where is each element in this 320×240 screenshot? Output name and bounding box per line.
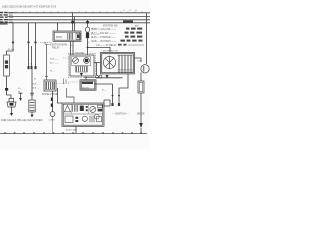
pin ticks on bus 1 <box>16 11 142 13</box>
fuse block value text <box>9 12 13 23</box>
ECU comparator triangle <box>64 105 70 111</box>
ECU lower hatch <box>90 116 94 123</box>
wire coil to distributor <box>88 47 111 52</box>
ECU small boxes <box>98 105 103 108</box>
igniter inner compartment <box>72 56 91 65</box>
resistor R1 <box>138 81 144 93</box>
junction dot coil/distributor wire <box>87 47 89 49</box>
igniter transistor Q2 <box>84 58 90 64</box>
ECU dark block <box>80 106 84 111</box>
noise filter box <box>44 80 56 91</box>
noise filter leader dashes <box>57 83 71 85</box>
wire drop D (x35.5) <box>35 23 37 66</box>
distributor box <box>101 53 135 74</box>
igniter leader dashes <box>63 57 70 59</box>
signal generator (circle with cross) <box>103 56 115 70</box>
label AM2 on bus <box>123 21 133 23</box>
wire drop B (x28.5) <box>28 23 30 66</box>
wire drop C (x31.5) <box>31 46 33 66</box>
coil top wire <box>87 20 89 27</box>
svg-text:COND: COND <box>49 119 56 121</box>
igniter transistor Q1 <box>73 58 79 64</box>
noise filter hatch <box>47 82 54 89</box>
connector row (3 pins) <box>28 66 37 69</box>
svg-text:FL 0.5: FL 0.5 <box>8 49 15 51</box>
ECU pin marks top <box>111 103 113 106</box>
small symbols left of tacho <box>64 79 67 85</box>
noise filter top stem <box>46 44 48 80</box>
ECU transistor circle 2 <box>94 114 99 119</box>
ground bus <box>0 132 147 134</box>
sensor ground <box>11 107 13 113</box>
wire pair drop to coil box right (x72.5,74.5) <box>72 13 74 31</box>
svg-text:1982 CELICA (5M-GE) IGN SYSTEM: 1982 CELICA (5M-GE) IGN SYSTEM <box>1 119 43 122</box>
wire drop to fusible link <box>7 23 14 55</box>
wire to ECU left <box>58 88 63 103</box>
svg-text:NOISE FILTER: NOISE FILTER <box>42 94 58 96</box>
svg-text:RELAY: RELAY <box>52 46 60 49</box>
svg-text:(: ( <box>89 40 90 44</box>
svg-text:5M-GE: 5M-GE <box>137 113 145 116</box>
ECU hatch block <box>73 105 78 112</box>
svg-text:1982 CELICA 5M-GE (M/T,A/T) IG: 1982 CELICA 5M-GE (M/T,A/T) IGNITION SYS <box>2 4 56 8</box>
bus wire 2 <box>8 16 151 18</box>
ECU lower marks <box>75 117 78 119</box>
junction dot <box>71 21 74 24</box>
coil bottom wire <box>87 38 89 55</box>
tick on wire <box>31 94 34 96</box>
svg-text:AM: AM <box>135 24 138 27</box>
cylinder ground <box>31 112 33 115</box>
wire stub row 5 <box>128 44 144 46</box>
check connector circle <box>141 65 149 73</box>
wire tacho drop <box>94 83 113 85</box>
wire distributor right drop <box>119 74 128 103</box>
ECU lower box <box>65 116 73 122</box>
bus wire 3 <box>8 19 151 21</box>
wire ECU to ground bus <box>75 126 77 133</box>
wire distributor to check line <box>135 58 142 62</box>
ignition main relay box <box>53 31 81 41</box>
resistor cylinder (cord) <box>30 92 34 94</box>
wire below check connector <box>140 73 142 82</box>
leader dashes mid-left <box>40 41 52 43</box>
wire tacho top <box>85 77 87 80</box>
relay coil hatch <box>68 33 73 40</box>
wire noise filter down <box>52 91 54 112</box>
wire resistor down <box>140 93 142 123</box>
svg-text:B-Y ——: B-Y —— <box>50 62 59 64</box>
svg-text:IG: IG <box>70 44 73 46</box>
wire fusible link bottom <box>6 76 8 95</box>
svg-text:E1 E2 GND: E1 E2 GND <box>66 130 77 132</box>
distributor terminals <box>96 75 99 78</box>
svg-text:— IGNITION —: — IGNITION — <box>112 113 129 116</box>
igniter outer box (dashed) <box>68 53 95 77</box>
igniter internal ground <box>80 73 83 76</box>
svg-text:L-R —— ST RELAY: L-R —— ST RELAY <box>96 44 117 47</box>
coil leader dashes <box>91 28 100 34</box>
svg-text:(B-W) — IGN COIL ——: (B-W) — IGN COIL —— <box>91 29 116 31</box>
svg-text:(: ( <box>89 33 90 37</box>
tacho leader dashes <box>68 81 80 83</box>
ground bus junction nubs <box>4 132 142 134</box>
arrow to ground bus <box>139 123 143 128</box>
svg-text:B-W ——: B-W —— <box>50 58 60 60</box>
sensor (pickup) body <box>9 98 14 101</box>
svg-text:MAIN: MAIN <box>56 36 62 39</box>
svg-text:W —: W — <box>50 70 56 72</box>
connector hatch on wire <box>51 98 53 101</box>
fuse block connector (left edge) <box>0 12 8 25</box>
junction dot <box>118 95 120 97</box>
igniter resistor hatch <box>77 67 87 72</box>
igniter box <box>70 55 94 76</box>
fusible link element <box>5 60 8 63</box>
ignition coil <box>85 27 89 32</box>
svg-text:W-R —: W-R — <box>32 84 40 86</box>
wire below connector <box>31 69 33 100</box>
cap terminal circles <box>118 71 132 73</box>
condenser circle <box>50 112 55 117</box>
svg-text:(B-R) — STARTER ——: (B-R) — STARTER —— <box>91 36 117 39</box>
check connector wire <box>146 13 148 64</box>
svg-text:IGNITION SW: IGNITION SW <box>103 25 118 27</box>
ECU corner box <box>104 100 110 106</box>
connector ticks on drops <box>12 42 37 44</box>
svg-text:CHK: CHK <box>138 61 143 63</box>
svg-text:(W-B) — BATTERY ——: (W-B) — BATTERY —— <box>91 40 117 43</box>
fusible link box <box>4 55 10 76</box>
bus wire 4 <box>0 22 150 24</box>
leader arrow left of caption <box>45 44 50 46</box>
svg-text:(B-Y) — IGN SW ———: (B-Y) — IGN SW ——— <box>91 33 117 35</box>
ticks above bus on right <box>124 9 136 11</box>
distributor ground <box>105 75 108 78</box>
wire drop to coil box (x57.5) <box>57 23 59 31</box>
tachometer box <box>80 80 96 90</box>
ECU mid line <box>63 113 103 115</box>
ECU small marks <box>86 106 88 108</box>
wire jog into ECU top <box>67 88 75 103</box>
svg-text:TACHO: TACHO <box>82 86 90 89</box>
distributor cap winding hatch <box>119 55 131 70</box>
bus wire 1 (top, with pin ticks) <box>8 12 151 14</box>
wire igniter to distributor <box>94 62 100 64</box>
relay contact box <box>76 33 80 39</box>
ground stub <box>19 92 23 94</box>
ECU box <box>62 103 104 126</box>
svg-text:W-B —: W-B — <box>32 87 40 89</box>
ECU divider lines <box>70 104 72 113</box>
ECU transistor circle <box>90 106 96 112</box>
wire distributor bottom <box>96 77 123 79</box>
ECU lower circle <box>82 116 87 121</box>
wire relay to igniter <box>72 41 74 55</box>
